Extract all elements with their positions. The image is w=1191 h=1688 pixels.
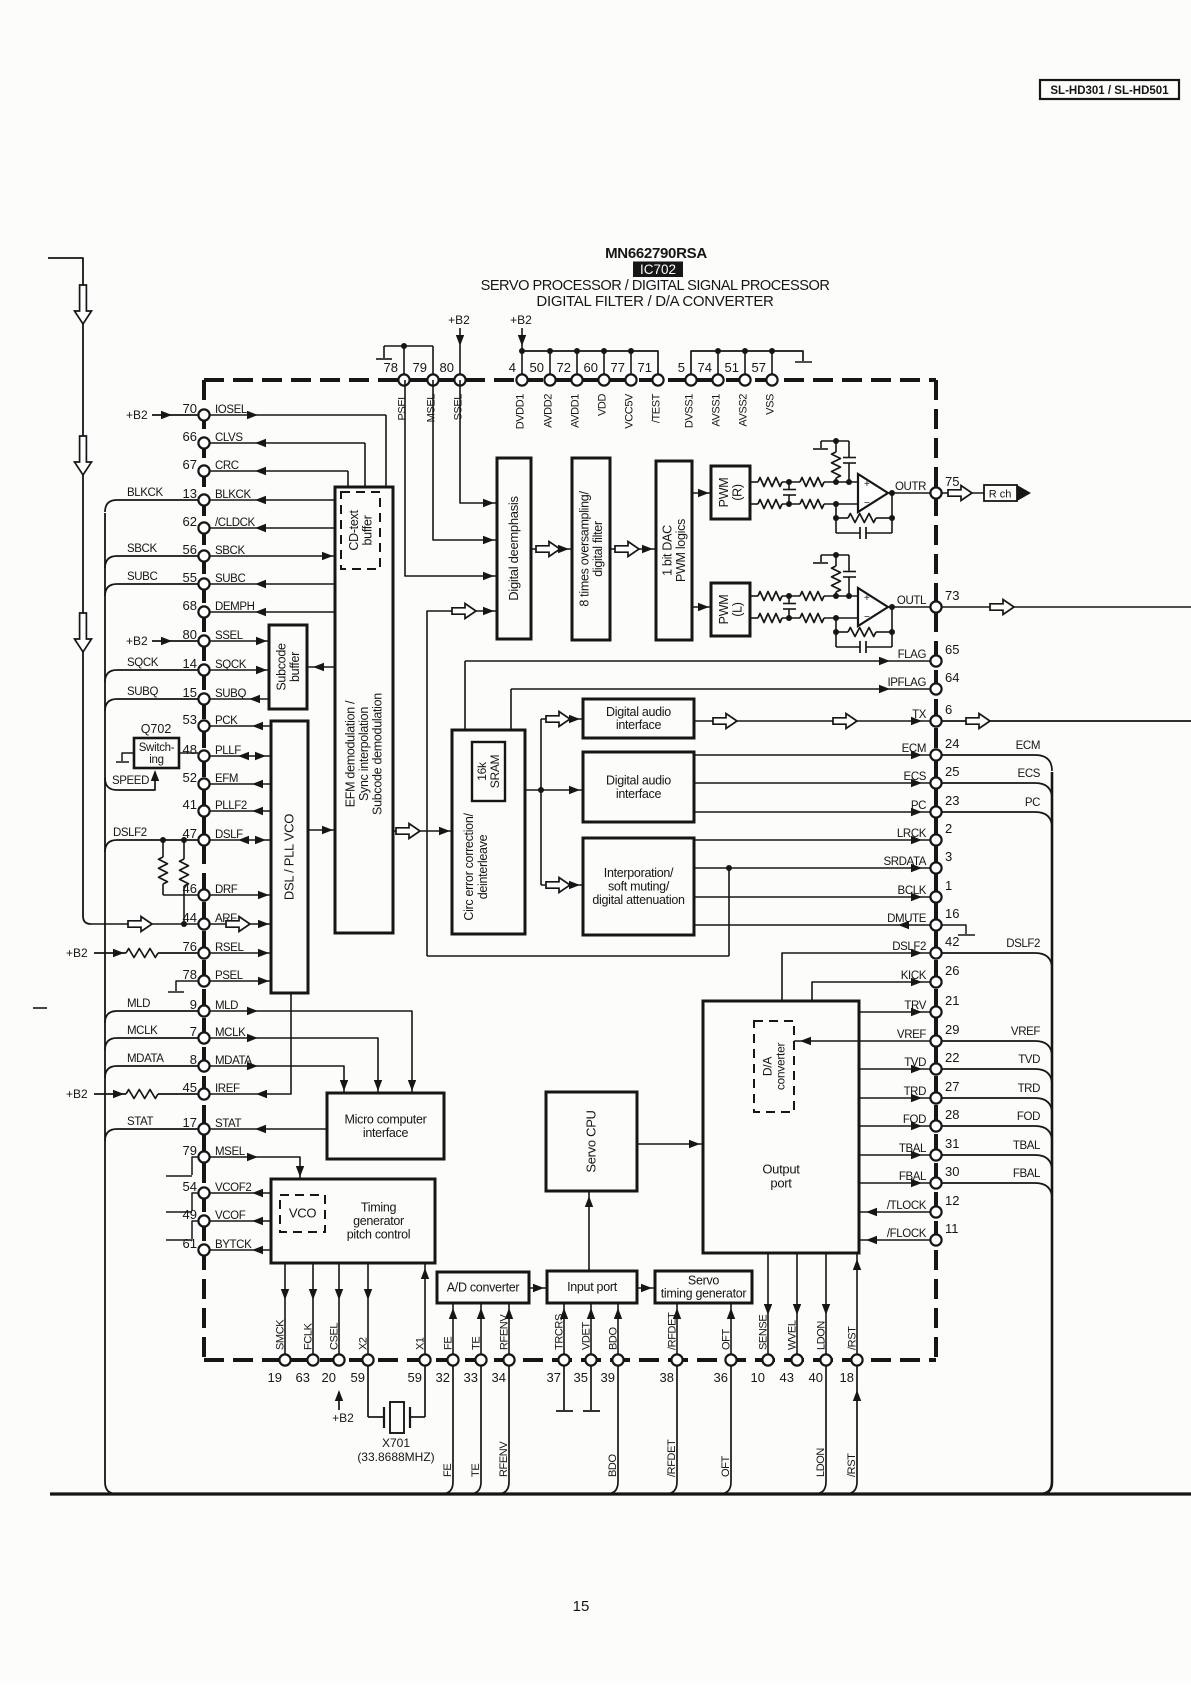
svg-text:26: 26 — [945, 963, 959, 978]
svg-text:TVD: TVD — [1018, 1054, 1040, 1066]
svg-text:60: 60 — [584, 360, 598, 375]
svg-text:DSLF2: DSLF2 — [113, 827, 147, 839]
svg-text:BLKCK: BLKCK — [127, 487, 163, 499]
svg-text:+B2: +B2 — [66, 1087, 88, 1101]
svg-text:VCC5V: VCC5V — [624, 393, 636, 429]
svg-text:36: 36 — [714, 1370, 728, 1385]
svg-text:25: 25 — [945, 764, 959, 779]
svg-text:80: 80 — [183, 627, 197, 642]
svg-text:21: 21 — [945, 993, 959, 1008]
svg-text:67: 67 — [183, 457, 197, 472]
svg-text:/TLOCK: /TLOCK — [887, 1200, 927, 1212]
svg-text:3: 3 — [945, 849, 952, 864]
svg-text:FE: FE — [442, 1464, 454, 1477]
svg-text:ECS: ECS — [1018, 768, 1041, 780]
svg-text:75: 75 — [945, 474, 959, 489]
svg-text:DVDD1: DVDD1 — [515, 394, 527, 430]
svg-text:SRDATA: SRDATA — [883, 856, 926, 868]
svg-text:interface: interface — [616, 718, 662, 732]
svg-text:66: 66 — [183, 429, 197, 444]
svg-text:8 times oversampling/: 8 times oversampling/ — [577, 491, 591, 607]
svg-text:1 bit DAC: 1 bit DAC — [660, 525, 674, 576]
svg-text:18: 18 — [840, 1370, 854, 1385]
svg-text:2: 2 — [945, 821, 952, 836]
svg-text:/RFDET: /RFDET — [666, 1439, 678, 1477]
svg-text:SRAM: SRAM — [488, 754, 502, 788]
svg-text:Timing: Timing — [361, 1201, 397, 1215]
svg-text:LDON: LDON — [815, 1448, 827, 1477]
svg-text:converter: converter — [774, 1043, 788, 1091]
svg-text:8: 8 — [190, 1052, 197, 1067]
svg-text:Digital audio: Digital audio — [606, 773, 671, 787]
svg-text:interface: interface — [616, 787, 662, 801]
svg-text:1: 1 — [945, 878, 952, 893]
svg-text:80: 80 — [440, 360, 454, 375]
svg-text:X701: X701 — [382, 1436, 410, 1450]
svg-text:Input port: Input port — [567, 1280, 618, 1294]
svg-text:FOD: FOD — [1017, 1111, 1040, 1123]
svg-text:Digital audio: Digital audio — [606, 705, 671, 719]
svg-text:digital attenuation: digital attenuation — [592, 893, 685, 907]
svg-text:37: 37 — [547, 1370, 561, 1385]
svg-text:54: 54 — [183, 1179, 197, 1194]
svg-text:DVSS1: DVSS1 — [684, 394, 696, 428]
svg-text:Digital deemphasis: Digital deemphasis — [506, 495, 521, 600]
svg-text:52: 52 — [183, 770, 197, 785]
svg-text:15: 15 — [183, 685, 197, 700]
svg-text:+B2: +B2 — [510, 313, 532, 327]
svg-text:MDATA: MDATA — [127, 1053, 164, 1065]
svg-text:OUTR: OUTR — [895, 481, 926, 493]
svg-text:IPFLAG: IPFLAG — [887, 677, 926, 689]
svg-text:AVSS2: AVSS2 — [738, 394, 750, 427]
svg-text:+B2: +B2 — [332, 1411, 354, 1425]
svg-text:pitch control: pitch control — [347, 1228, 411, 1242]
svg-text:68: 68 — [183, 598, 197, 613]
svg-text:port: port — [770, 1176, 792, 1191]
svg-text:74: 74 — [698, 360, 712, 375]
svg-text:Subcode: Subcode — [274, 643, 288, 691]
svg-text:SSEL: SSEL — [453, 394, 465, 421]
svg-text:RFENV: RFENV — [498, 1441, 510, 1477]
svg-text:A/D converter: A/D converter — [447, 1281, 520, 1295]
svg-text:43: 43 — [780, 1370, 794, 1385]
svg-text:39: 39 — [601, 1370, 615, 1385]
svg-text:78: 78 — [183, 967, 197, 982]
svg-text:deinterleave: deinterleave — [476, 834, 490, 899]
svg-text:33: 33 — [464, 1370, 478, 1385]
svg-text:MCLK: MCLK — [127, 1025, 158, 1037]
svg-text:19: 19 — [268, 1370, 282, 1385]
svg-text:PSEL: PSEL — [397, 394, 409, 421]
svg-text:38: 38 — [660, 1370, 674, 1385]
svg-text:interface: interface — [363, 1126, 409, 1140]
svg-text:51: 51 — [725, 360, 739, 375]
svg-text:+B2: +B2 — [126, 634, 148, 648]
svg-text:5: 5 — [678, 360, 685, 375]
svg-text:SQCK: SQCK — [127, 657, 159, 669]
svg-text:TBAL: TBAL — [1013, 1140, 1041, 1152]
svg-text:29: 29 — [945, 1022, 959, 1037]
svg-text:ECM: ECM — [1016, 740, 1040, 752]
svg-text:77: 77 — [611, 360, 625, 375]
svg-text:12: 12 — [945, 1193, 959, 1208]
svg-text:16: 16 — [945, 906, 959, 921]
svg-text:PWM logics: PWM logics — [674, 519, 688, 582]
svg-text:78: 78 — [384, 360, 398, 375]
svg-text:/TEST: /TEST — [651, 393, 663, 423]
svg-text:4: 4 — [509, 360, 516, 375]
svg-text:71: 71 — [638, 360, 652, 375]
svg-text:65: 65 — [945, 642, 959, 657]
svg-text:DIGITAL FILTER / D/A CONVERTER: DIGITAL FILTER / D/A CONVERTER — [536, 293, 774, 310]
svg-text:31: 31 — [945, 1136, 959, 1151]
svg-text:/RST: /RST — [846, 1453, 858, 1477]
svg-text:VDD: VDD — [597, 394, 609, 416]
svg-text:timing generator: timing generator — [661, 1287, 747, 1301]
svg-text:STAT: STAT — [127, 1116, 153, 1128]
svg-text:SERVO PROCESSOR / DIGITAL SIGN: SERVO PROCESSOR / DIGITAL SIGNAL PROCESS… — [481, 278, 830, 294]
svg-text:40: 40 — [809, 1370, 823, 1385]
svg-text:BDO: BDO — [607, 1454, 619, 1477]
svg-text:76: 76 — [183, 939, 197, 954]
svg-text:soft muting/: soft muting/ — [608, 880, 670, 894]
svg-text:/FLOCK: /FLOCK — [887, 1228, 927, 1240]
svg-text:63: 63 — [296, 1370, 310, 1385]
svg-text:OUTL: OUTL — [897, 595, 927, 607]
svg-text:32: 32 — [436, 1370, 450, 1385]
svg-text:64: 64 — [945, 670, 959, 685]
svg-text:+B2: +B2 — [126, 408, 148, 422]
svg-text:61: 61 — [183, 1236, 197, 1251]
svg-text:DSL / PLL VCO: DSL / PLL VCO — [282, 814, 297, 900]
svg-text:6: 6 — [945, 702, 952, 717]
svg-text:AVDD1: AVDD1 — [570, 394, 582, 428]
svg-text:10: 10 — [751, 1370, 765, 1385]
svg-text:+B2: +B2 — [66, 946, 88, 960]
svg-text:+: + — [864, 593, 870, 604]
svg-text:+B2: +B2 — [448, 313, 470, 327]
svg-text:R ch: R ch — [989, 489, 1012, 501]
svg-text:PWM: PWM — [717, 595, 731, 625]
svg-text:SUBC: SUBC — [127, 571, 157, 583]
svg-text:MN662790RSA: MN662790RSA — [605, 245, 707, 262]
svg-text:DSLF2: DSLF2 — [892, 941, 926, 953]
svg-text:35: 35 — [574, 1370, 588, 1385]
svg-text:Circ error correction/: Circ error correction/ — [462, 813, 476, 921]
svg-text:30: 30 — [945, 1164, 959, 1179]
svg-text:72: 72 — [557, 360, 571, 375]
svg-text:Q702: Q702 — [141, 722, 172, 736]
svg-text:59: 59 — [408, 1370, 422, 1385]
svg-text:49: 49 — [183, 1207, 197, 1222]
svg-text:FLAG: FLAG — [898, 649, 927, 661]
svg-text:EFM demodulation /: EFM demodulation / — [344, 700, 358, 807]
svg-text:17: 17 — [183, 1115, 197, 1130]
svg-text:34: 34 — [492, 1370, 506, 1385]
svg-text:Subcode demodulation: Subcode demodulation — [371, 693, 385, 815]
svg-text:Output: Output — [762, 1162, 800, 1177]
svg-text:PWM: PWM — [717, 478, 731, 508]
svg-text:generator: generator — [353, 1214, 404, 1228]
svg-text:Interporation/: Interporation/ — [604, 866, 674, 880]
svg-text:−: − — [864, 612, 870, 623]
svg-text:PC: PC — [1025, 797, 1040, 809]
svg-text:TE: TE — [470, 1464, 482, 1477]
svg-text:MLD: MLD — [127, 998, 150, 1010]
svg-text:FBAL: FBAL — [1013, 1168, 1041, 1180]
svg-text:VCO: VCO — [289, 1206, 316, 1221]
svg-text:+: + — [864, 479, 870, 490]
svg-text:48: 48 — [183, 742, 197, 757]
svg-text:−: − — [864, 498, 870, 509]
svg-text:TRD: TRD — [1018, 1083, 1041, 1095]
svg-text:7: 7 — [190, 1024, 197, 1039]
svg-text:ing: ing — [149, 754, 163, 766]
svg-text:SUBQ: SUBQ — [127, 686, 158, 698]
svg-text:Micro computer: Micro computer — [345, 1112, 427, 1126]
svg-text:Sync interpolation: Sync interpolation — [357, 707, 371, 801]
svg-text:AVSS1: AVSS1 — [711, 394, 723, 427]
svg-text:24: 24 — [945, 736, 959, 751]
svg-text:digital filter: digital filter — [591, 521, 605, 577]
svg-text:23: 23 — [945, 793, 959, 808]
svg-text:70: 70 — [183, 401, 197, 416]
svg-text:MSEL: MSEL — [426, 394, 438, 423]
svg-text:13: 13 — [183, 486, 197, 501]
svg-text:79: 79 — [413, 360, 427, 375]
svg-text:62: 62 — [183, 514, 197, 529]
svg-text:57: 57 — [752, 360, 766, 375]
svg-text:41: 41 — [183, 797, 197, 812]
svg-text:53: 53 — [183, 712, 197, 727]
svg-text:AVDD2: AVDD2 — [543, 394, 555, 428]
svg-text:11: 11 — [945, 1221, 959, 1236]
svg-text:16k: 16k — [475, 761, 489, 781]
svg-text:buffer: buffer — [360, 515, 374, 545]
svg-text:D/A: D/A — [761, 1057, 775, 1076]
svg-text:9: 9 — [190, 997, 197, 1012]
svg-text:59: 59 — [351, 1370, 365, 1385]
svg-text:(L): (L) — [730, 602, 744, 617]
svg-text:SL-HD301 / SL-HD501: SL-HD301 / SL-HD501 — [1050, 85, 1169, 97]
svg-text:45: 45 — [183, 1080, 197, 1095]
svg-text:Servo CPU: Servo CPU — [584, 1110, 599, 1172]
svg-text:50: 50 — [530, 360, 544, 375]
svg-text:DSLF2: DSLF2 — [1006, 938, 1040, 950]
svg-text:OFT: OFT — [720, 1456, 732, 1477]
svg-text:SPEED: SPEED — [112, 775, 149, 787]
svg-text:VSS: VSS — [765, 394, 777, 415]
svg-text:CD-text: CD-text — [347, 510, 361, 551]
svg-text:(33.8688MHZ): (33.8688MHZ) — [357, 1450, 434, 1464]
svg-text:Servo: Servo — [688, 1274, 720, 1288]
svg-text:buffer: buffer — [288, 652, 302, 682]
svg-text:(R): (R) — [730, 484, 744, 501]
svg-text:20: 20 — [322, 1370, 336, 1385]
svg-text:28: 28 — [945, 1107, 959, 1122]
svg-text:VREF: VREF — [897, 1029, 926, 1041]
svg-text:Switch-: Switch- — [139, 742, 175, 754]
svg-text:73: 73 — [945, 588, 959, 603]
svg-text:55: 55 — [183, 570, 197, 585]
svg-text:79: 79 — [183, 1143, 197, 1158]
svg-text:42: 42 — [945, 934, 959, 949]
svg-text:IC702: IC702 — [640, 262, 676, 277]
svg-text:15: 15 — [573, 1598, 590, 1615]
svg-text:SBCK: SBCK — [127, 543, 157, 555]
svg-text:56: 56 — [183, 542, 197, 557]
svg-text:VREF: VREF — [1011, 1026, 1040, 1038]
svg-text:27: 27 — [945, 1079, 959, 1094]
svg-text:14: 14 — [183, 656, 197, 671]
svg-text:22: 22 — [945, 1050, 959, 1065]
